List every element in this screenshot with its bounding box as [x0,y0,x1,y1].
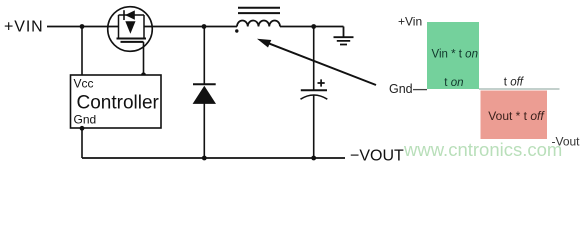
waveform pink area Vout*toff [481,91,548,140]
diode D1 triangle [193,86,216,104]
svg-text:+Vin: +Vin [398,15,422,29]
svg-text:−VOUT: −VOUT [350,148,404,165]
transistor Q1 top path [119,14,145,16]
junction dot Vin/Vcc [80,24,85,29]
inductor L1 phase dot [235,29,238,32]
transistor Q1 body diode cathode bar [123,10,125,20]
waveform gnd line left [413,89,427,91]
svg-text:Controller: Controller [77,93,160,114]
svg-text:Gnd: Gnd [74,113,97,127]
inductor L1 core bar upper [238,7,280,9]
wire top rail middle [144,26,237,28]
transistor Q1 left vertical [118,15,120,38]
svg-text:Vcc: Vcc [74,77,94,91]
svg-text:+VIN: +VIN [4,19,44,36]
svg-text:t off: t off [504,77,525,89]
waveform green area Vin*ton [427,22,479,89]
junction dot Gnd pin [80,126,85,131]
transistor Q1 gate plate [121,41,144,43]
transistor Q1 P-MOSFET circle [108,7,153,52]
wire gate drop [143,42,145,75]
inductor L1 coil [237,20,280,26]
transistor Q1 right vertical [143,15,145,38]
junction dot capacitor bottom [311,156,316,161]
capacitor C1 top plate [301,89,327,91]
transistor Q1 body diode triangle [125,10,135,19]
capacitor C1 curved plate [301,95,328,99]
svg-text:Vout * t off: Vout * t off [488,109,545,123]
svg-text:Gnd: Gnd [389,82,413,96]
wire diode branch lower [203,104,205,159]
wire capacitor branch upper [313,27,315,91]
wire Gnd drop [81,128,83,158]
svg-text:t on: t on [444,77,463,89]
annotation arrow to inductor [266,42,376,85]
ground symbol [334,37,354,44]
junction dot diode bottom [202,156,207,161]
junction dot gate pin [141,72,146,77]
junction dot diode branch [202,24,207,29]
svg-text:Vin * t on: Vin * t on [432,48,478,60]
wire bottom rail [82,157,345,159]
svg-text:www.cntronics.com: www.cntronics.com [403,139,562,160]
wire capacitor branch lower [313,96,315,159]
transistor Q1 channel plate [117,38,147,40]
wire ground drop [343,27,345,37]
controller U1 box [71,75,162,128]
inductor L1 core bar lower [238,12,280,14]
wire Vcc drop [81,27,83,76]
wire diode branch upper [203,27,205,86]
diode D1 cathode bar [193,83,216,85]
wire top rail left [47,26,119,28]
junction dot capacitor branch [311,24,316,29]
capacitor C1 plus sign [318,79,325,86]
transistor Q1 substrate arrow [125,21,135,34]
waveform gnd line right [479,88,560,90]
wire top rail right [280,26,344,28]
